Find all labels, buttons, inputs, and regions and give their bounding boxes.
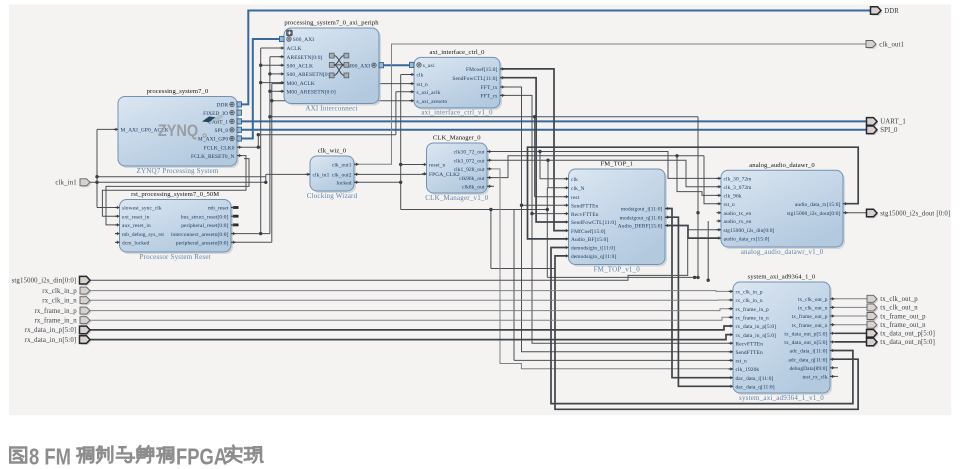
svg-text:AXI Interconnect: AXI Interconnect — [305, 104, 357, 112]
svg-text:tx_data_out_n[5:0]: tx_data_out_n[5:0] — [784, 340, 827, 346]
svg-text:rx_clk_in_p: rx_clk_in_p — [736, 290, 763, 296]
svg-text:demodsigin_q[11:0]: demodsigin_q[11:0] — [571, 254, 616, 260]
svg-text:Audio_BF[15:0]: Audio_BF[15:0] — [571, 237, 608, 243]
svg-text:M_AXI_GP0: M_AXI_GP0 — [198, 137, 228, 143]
svg-text:stg15000_i2s_din[0:0]: stg15000_i2s_din[0:0] — [12, 278, 77, 285]
svg-text:S00_ARESETN[0:0]: S00_ARESETN[0:0] — [287, 72, 335, 78]
svg-text:analog_audio_datawr_0: analog_audio_datawr_0 — [749, 162, 815, 169]
svg-text:rx_frame_in_n: rx_frame_in_n — [736, 315, 770, 322]
svg-text:s_axi_aclk: s_axi_aclk — [417, 90, 441, 96]
svg-text:modsigout_q[11:0]: modsigout_q[11:0] — [620, 215, 663, 221]
svg-text:rx_data_in_n[5:0]: rx_data_in_n[5:0] — [25, 337, 77, 344]
svg-text:interconnect_aresetn[0:0]: interconnect_aresetn[0:0] — [171, 232, 229, 238]
svg-text:FCLK_CLK0: FCLK_CLK0 — [204, 145, 235, 151]
svg-text:clk_30_72m: clk_30_72m — [724, 177, 753, 183]
svg-text:tx_clk_out_p: tx_clk_out_p — [880, 296, 918, 303]
svg-text:dcm_locked: dcm_locked — [122, 241, 150, 247]
svg-text:clk_3_072m: clk_3_072m — [724, 185, 753, 191]
svg-text:rx_clk_in_p: rx_clk_in_p — [42, 288, 77, 295]
svg-text:CLK_Manager_v1_0: CLK_Manager_v1_0 — [425, 194, 488, 202]
svg-text:rx_data_in_p[5:0]: rx_data_in_p[5:0] — [736, 324, 777, 330]
svg-text:clk3_072_out: clk3_072_out — [454, 158, 485, 164]
svg-text:rx_clk_in_n: rx_clk_in_n — [736, 298, 763, 304]
svg-text:dac_data_q[11:0]: dac_data_q[11:0] — [736, 385, 775, 391]
svg-text:locked: locked — [337, 181, 352, 187]
svg-text:clk_in1: clk_in1 — [313, 173, 330, 179]
svg-text:FM_TOP_v1_0: FM_TOP_v1_0 — [594, 265, 641, 273]
svg-text:s_axi_aresetn: s_axi_aresetn — [417, 99, 448, 105]
svg-text:system_axi_ad9364_1_v1_0: system_axi_ad9364_1_v1_0 — [739, 394, 824, 402]
svg-text:mb_debug_sys_rst: mb_debug_sys_rst — [122, 232, 164, 238]
svg-text:modsigout_i[11:0]: modsigout_i[11:0] — [621, 207, 663, 213]
svg-text:adc_data_i[11:0]: adc_data_i[11:0] — [790, 349, 828, 355]
svg-text:tx_clk_out_n: tx_clk_out_n — [880, 305, 918, 312]
svg-text:audio_data_tx[15:0]: audio_data_tx[15:0] — [795, 202, 841, 208]
svg-text:ZYNQ7 Processing System: ZYNQ7 Processing System — [137, 167, 219, 175]
svg-text:tx_frame_out_n: tx_frame_out_n — [880, 322, 926, 329]
svg-text:RecvFTTEn: RecvFTTEn — [571, 212, 599, 218]
svg-text:FFT_rx: FFT_rx — [480, 94, 497, 100]
svg-text:audio_data_rx[15:0]: audio_data_rx[15:0] — [724, 236, 770, 242]
svg-text:tx_data_out_p[5:0]: tx_data_out_p[5:0] — [880, 331, 935, 338]
svg-text:SPI_0: SPI_0 — [880, 127, 898, 134]
svg-text:stg15000_i2s_dout[0:0]: stg15000_i2s_dout[0:0] — [787, 211, 841, 217]
svg-text:debugData[89:0]: debugData[89:0] — [789, 366, 827, 372]
svg-text:8 FM: 8 FM — [29, 444, 71, 469]
svg-text:M00_ARESETN[0:0]: M00_ARESETN[0:0] — [287, 90, 336, 96]
svg-text:rx_frame_in_p: rx_frame_in_p — [736, 306, 770, 313]
svg-text:clk_out1: clk_out1 — [879, 41, 904, 48]
svg-text:UART_1: UART_1 — [880, 119, 906, 126]
svg-text:clk_out2: clk_out2 — [332, 173, 352, 179]
svg-text:aux_reset_in: aux_reset_in — [122, 223, 151, 229]
svg-text:RecvFTTEn: RecvFTTEn — [736, 341, 764, 347]
svg-text:peripheral_aresetn[0:0]: peripheral_aresetn[0:0] — [176, 241, 229, 247]
svg-text:audio_tx_en: audio_tx_en — [724, 211, 752, 217]
svg-text:tx_frame_out_p: tx_frame_out_p — [880, 313, 926, 320]
svg-text:clk: clk — [571, 177, 578, 183]
svg-text:mb_reset: mb_reset — [208, 206, 229, 212]
svg-text:S00_AXI: S00_AXI — [293, 37, 314, 43]
svg-text:reset_n: reset_n — [429, 163, 445, 169]
svg-text:FM_TOP_1: FM_TOP_1 — [601, 161, 634, 168]
svg-text:Processor System Reset: Processor System Reset — [140, 253, 211, 261]
svg-text:SendFowCTL[11:0]: SendFowCTL[11:0] — [452, 76, 497, 82]
svg-text:ACLK: ACLK — [287, 46, 302, 52]
svg-text:rx_frame_in_n: rx_frame_in_n — [34, 318, 77, 325]
svg-text:audio_rx_en: audio_rx_en — [724, 219, 752, 225]
svg-text:Audio_DERF[15:0]: Audio_DERF[15:0] — [618, 224, 663, 230]
svg-text:dac_data_i[11:0]: dac_data_i[11:0] — [736, 376, 774, 382]
svg-text:rx_clk_in_n: rx_clk_in_n — [42, 298, 77, 305]
svg-text:stg15000_i2s_din[0:0]: stg15000_i2s_din[0:0] — [724, 228, 775, 234]
svg-text:bus_struct_reset[0:0]: bus_struct_reset[0:0] — [181, 214, 229, 220]
svg-text:M00_AXI: M00_AXI — [347, 63, 370, 69]
svg-text:tx_frame_out_n: tx_frame_out_n — [792, 322, 828, 329]
svg-text:processing_system7_0: processing_system7_0 — [147, 88, 209, 95]
svg-text:processing_system7_0_axi_perip: processing_system7_0_axi_periph — [284, 20, 379, 27]
svg-text:SPI_0: SPI_0 — [215, 128, 229, 134]
svg-text:system_axi_ad9364_1_0: system_axi_ad9364_1_0 — [748, 274, 816, 281]
svg-text:rx_data_in_p[5:0]: rx_data_in_p[5:0] — [25, 327, 77, 334]
svg-text:SendFTTEn: SendFTTEn — [736, 350, 763, 356]
svg-text:peripheral_reset[0:0]: peripheral_reset[0:0] — [181, 223, 228, 229]
svg-text:rest: rest — [571, 195, 580, 201]
svg-text:tx_data_out_n[5:0]: tx_data_out_n[5:0] — [880, 339, 935, 346]
svg-text:ZYNQ: ZYNQ — [158, 122, 198, 140]
svg-text:FIXED_IO: FIXED_IO — [203, 111, 228, 117]
svg-text:clk_1920k: clk_1920k — [736, 367, 760, 373]
svg-text:SendFowCTL[11:0]: SendFowCTL[11:0] — [571, 220, 616, 226]
svg-text:slowest_sync_clk: slowest_sync_clk — [122, 206, 162, 212]
svg-text:rst_n: rst_n — [724, 202, 735, 208]
svg-text:clk96k_out: clk96k_out — [459, 176, 485, 182]
svg-text:axi_interface_ctrl_0: axi_interface_ctrl_0 — [429, 49, 485, 56]
svg-text:clk1_928_out: clk1_928_out — [454, 167, 485, 173]
svg-text:S00_ACLK: S00_ACLK — [287, 63, 314, 69]
svg-text:ext_reset_in: ext_reset_in — [122, 214, 150, 220]
svg-text:FCLK_RESET0_N: FCLK_RESET0_N — [191, 154, 235, 160]
svg-text:SendFTTEn: SendFTTEn — [571, 203, 598, 209]
svg-text:clk30_72_out: clk30_72_out — [454, 150, 485, 156]
svg-text:clk_N: clk_N — [571, 186, 585, 192]
svg-text:rst_n: rst_n — [736, 359, 747, 365]
svg-text:Clocking Wizard: Clocking Wizard — [307, 192, 358, 200]
svg-text:test_rx_clk: test_rx_clk — [802, 375, 827, 381]
svg-text:clk_wiz_0: clk_wiz_0 — [318, 148, 347, 155]
svg-text:rx_data_in_n[5:0]: rx_data_in_n[5:0] — [736, 333, 777, 339]
svg-text:rst_processing_system7_0_50M: rst_processing_system7_0_50M — [131, 191, 219, 198]
svg-text:clk8k_out: clk8k_out — [462, 185, 485, 191]
svg-text:rx_frame_in_p: rx_frame_in_p — [34, 308, 77, 315]
svg-text:demodsigin_i[11:0]: demodsigin_i[11:0] — [571, 246, 615, 252]
svg-text:tx_clk_out_n: tx_clk_out_n — [798, 306, 828, 312]
svg-text:s_axi: s_axi — [423, 63, 435, 69]
svg-text:ARESETN[0:0]: ARESETN[0:0] — [287, 55, 323, 61]
svg-text:tx_data_out_p[5:0]: tx_data_out_p[5:0] — [784, 332, 827, 338]
svg-text:FFT_tx: FFT_tx — [481, 85, 498, 91]
svg-text:adc_data_q[11:0]: adc_data_q[11:0] — [788, 357, 827, 363]
svg-text:CLK_Manager_0: CLK_Manager_0 — [433, 135, 481, 142]
svg-text:DDR: DDR — [217, 103, 229, 109]
svg-text:axi_interface_ctrl_v1_0: axi_interface_ctrl_v1_0 — [421, 109, 493, 117]
svg-text:M00_ACLK: M00_ACLK — [287, 81, 315, 87]
svg-text:clk_96k: clk_96k — [724, 194, 742, 200]
svg-text:stg15000_i2s_dout [0:0]: stg15000_i2s_dout [0:0] — [880, 210, 950, 217]
svg-text:FPGA: FPGA — [176, 444, 227, 469]
svg-text:rst_n: rst_n — [417, 82, 428, 88]
svg-text:clk_out1: clk_out1 — [332, 163, 352, 169]
svg-text:DDR: DDR — [884, 8, 899, 15]
svg-text:FMfCoef[15:0]: FMfCoef[15:0] — [571, 228, 606, 235]
svg-text:clk: clk — [417, 73, 424, 79]
svg-text:analog_audio_datawr_v1_0: analog_audio_datawr_v1_0 — [741, 248, 824, 256]
svg-text:FMcoef[15:0]: FMcoef[15:0] — [466, 66, 498, 73]
svg-text:tx_clk_out_p: tx_clk_out_p — [798, 297, 828, 303]
svg-text:tx_frame_out_p: tx_frame_out_p — [792, 313, 828, 320]
svg-text:clk_in1: clk_in1 — [55, 180, 76, 187]
